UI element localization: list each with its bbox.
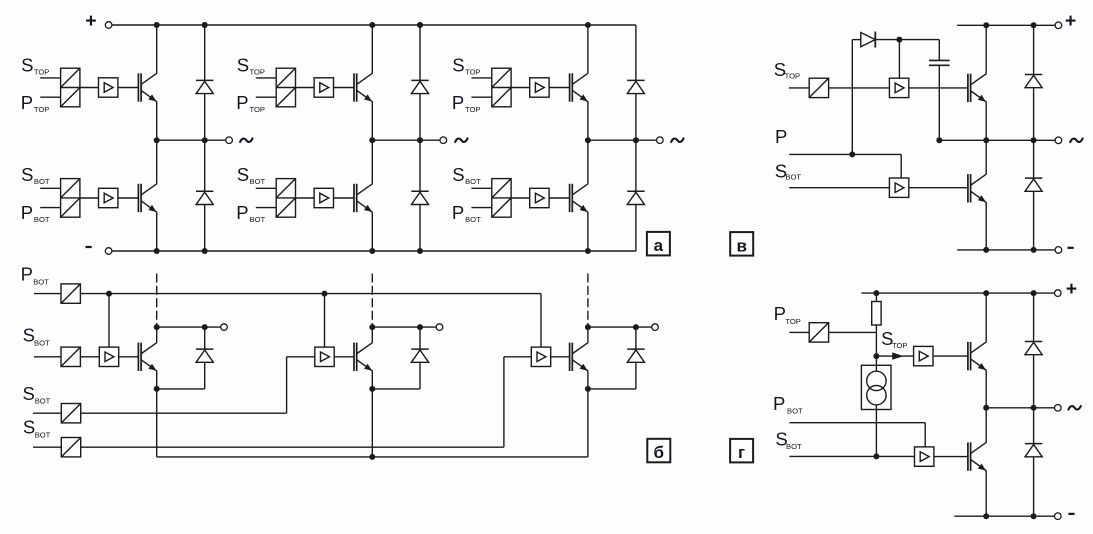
circuit v: diode column upper: [1033, 25, 1035, 74]
wire S_BOT 2: [33, 412, 61, 414]
transformer top leg3: [492, 68, 511, 107]
isolation box S_BOT 1: [61, 347, 80, 366]
circuit a: + DC rail: [112, 24, 636, 26]
wire box1 to driver1: [80, 356, 99, 358]
junction dot mid transistor leg1: [154, 137, 160, 143]
wire S3 to driver3: [504, 356, 531, 358]
svg-text:TOP: TOP: [465, 105, 480, 114]
circuit g: diode top: [1025, 341, 1042, 343]
circuit v: diode column to bottom: [1033, 191, 1035, 250]
circuit v: bootstrap capacitor: [929, 59, 950, 61]
svg-text:BOT: BOT: [465, 215, 481, 224]
emitter node wire b leg2: [372, 388, 420, 390]
wire P bus to driver1: [108, 294, 110, 348]
wire S_TOP leg1: [40, 77, 60, 79]
wire P_BOT leg2: [256, 207, 276, 209]
junction dot mid diode leg3: [633, 137, 639, 143]
circuit g: diode bottom: [1025, 443, 1042, 445]
circuit v: wire emitter top: [985, 102, 987, 140]
wire driver-gate bottom leg3: [549, 197, 570, 199]
junction dot emitter b leg1: [154, 386, 160, 392]
circuit v: bootstrap top wire: [875, 39, 939, 41]
emitter drop leg2 b: [371, 389, 373, 457]
AC mid rail leg1: [157, 139, 226, 141]
emitter drop leg1 b: [156, 389, 158, 457]
diode wire upper b leg2: [419, 327, 421, 349]
wire P_BOT leg1: [40, 207, 60, 209]
wire collector top leg1: [156, 25, 158, 73]
circuit g: IGBT top: [967, 342, 969, 370]
wire S3 horizontal: [81, 446, 504, 448]
circuit g: wire P_BOT down to driver: [924, 423, 926, 447]
junction dot bottom rail leg2 diode: [417, 248, 423, 254]
circuit g: wire driver-gate bottom: [934, 456, 968, 458]
AC output terminal leg2: [440, 137, 447, 144]
wire P bus to driver3: [540, 294, 542, 348]
svg-text:TOP: TOP: [465, 68, 480, 77]
driver b leg3: [531, 347, 550, 366]
circuit v: wire box to driver: [829, 87, 890, 89]
circuit a: minus terminal: [86, 246, 92, 248]
circuit g: wire resistor-junction: [875, 325, 877, 356]
wire emitter top leg3: [587, 102, 589, 140]
frame label g: [730, 439, 753, 463]
wire diode column to bottom leg1: [204, 205, 206, 252]
svg-text:P: P: [236, 202, 248, 223]
wire driver-gate b leg2: [334, 356, 354, 358]
circuit g: wire emitter bottom: [985, 471, 987, 516]
circuit g: mid rail: [986, 407, 1054, 409]
circuit g: junction dot rail transistor: [983, 290, 989, 296]
junction dot mid transistor leg2: [369, 137, 375, 143]
svg-text:P: P: [452, 92, 464, 113]
wire emitter b leg3: [587, 371, 589, 389]
wire collector top leg3: [587, 25, 589, 73]
wire emitter bottom leg3: [587, 212, 589, 251]
junction dot collector b leg3: [585, 324, 591, 330]
AC mid rail leg3: [588, 139, 657, 141]
wire collector b leg2: [371, 327, 373, 342]
circuit g: wire collector bottom: [985, 408, 987, 442]
svg-text:BOT: BOT: [34, 339, 50, 348]
isolation box S_BOT 2: [61, 404, 80, 423]
circuit v: + rail: [957, 24, 1055, 26]
junction dot P bus driver1: [106, 291, 112, 297]
IGBT b leg3: [569, 343, 571, 371]
junction dot bottom rail leg3 transistor: [585, 248, 591, 254]
circuit g: wire collector top: [985, 293, 987, 342]
wire P_TOP leg3: [471, 96, 491, 98]
IGBT top leg2: [353, 73, 355, 101]
circuit v: - rail: [957, 249, 1055, 251]
circuit g: driver top: [914, 346, 933, 365]
wire collector bottom leg3: [587, 140, 589, 183]
AC tilde leg1: [240, 138, 252, 142]
circuit v: wire dot to driver top: [898, 40, 900, 79]
wire diode column mid-lower leg3: [635, 140, 637, 191]
wire driver-gate bottom leg2: [334, 197, 355, 199]
wire xfmr-driver bottom leg2: [296, 197, 315, 199]
junction dot collector b leg2: [369, 324, 375, 330]
svg-text:BOT: BOT: [785, 173, 801, 182]
svg-text:+: +: [85, 10, 96, 32]
svg-text:BOT: BOT: [786, 442, 802, 451]
wire S_TOP leg3: [471, 77, 491, 79]
circuit g: driver bottom: [915, 447, 934, 466]
svg-text:TOP: TOP: [34, 68, 49, 77]
IGBT top leg3: [569, 73, 571, 101]
dashed link line leg1: [156, 274, 158, 328]
circuit g: CT circle 2: [867, 386, 886, 405]
circuit v: wire corner to capacitor: [938, 40, 940, 60]
svg-text:BOT: BOT: [34, 215, 50, 224]
circuit v: wire collector bottom: [985, 140, 987, 174]
wire S2 to driver2: [287, 356, 315, 358]
freewheel diode bottom leg2: [411, 190, 428, 192]
svg-text:TOP: TOP: [250, 68, 265, 77]
circuit g: diode column upper: [1033, 293, 1035, 341]
frame label a: [647, 232, 670, 256]
svg-text:P: P: [21, 202, 33, 223]
freewheel diode bottom leg1: [196, 190, 213, 192]
junction dot P bus driver2: [322, 291, 328, 297]
circuit g: junction dot rail diode: [1031, 290, 1037, 296]
svg-text:S: S: [237, 54, 249, 75]
diode b leg3: [627, 348, 644, 350]
circuit v: wire P: [789, 153, 901, 155]
svg-text:S: S: [452, 54, 464, 75]
output terminal b leg1: [221, 324, 228, 331]
circuit g: diode column mid-lower: [1033, 408, 1035, 444]
wire emitter top leg1: [156, 102, 158, 140]
circuit v: IGBT bottom: [967, 174, 969, 202]
diode b leg2: [411, 348, 428, 350]
circuit v: dots bottom rail: [983, 247, 989, 253]
diode b leg1: [196, 348, 213, 350]
wire P bus to driver2: [324, 294, 326, 348]
wire P_TOP leg2: [256, 96, 276, 98]
output terminal b leg3: [652, 324, 659, 331]
dashed link line leg3: [587, 274, 589, 328]
wire diode column mid-lower leg1: [204, 140, 206, 191]
svg-text:P: P: [236, 92, 248, 113]
circuit v: diode top: [1025, 74, 1042, 76]
wire diode column upper leg3: [635, 25, 637, 80]
svg-text:TOP: TOP: [785, 72, 800, 81]
wire diode column to mid leg3: [635, 94, 637, 141]
wire xfmr-driver bottom leg3: [511, 197, 530, 199]
circuit v: wire to bootstrap diode: [852, 39, 861, 41]
frame label v: [730, 232, 753, 256]
wire diode column mid-lower leg2: [419, 140, 421, 191]
circuit v: diode column to mid: [1033, 88, 1035, 141]
wire P_BOT leg3: [471, 207, 491, 209]
svg-text:TOP: TOP: [892, 341, 907, 350]
svg-text:BOT: BOT: [35, 430, 51, 439]
svg-text:P: P: [775, 126, 787, 147]
circuit v: dots top rail: [983, 22, 989, 28]
driver top leg2: [314, 78, 333, 97]
circuit g: wire S_BOT: [789, 455, 914, 457]
junction dot top rail leg2 transistor: [369, 22, 375, 28]
emitter drop leg3 b: [587, 389, 589, 457]
freewheel diode top leg3: [627, 79, 644, 81]
IGBT top leg1: [137, 73, 139, 101]
freewheel diode top leg2: [411, 79, 428, 81]
driver bottom leg2: [314, 188, 333, 207]
svg-text:а: а: [654, 236, 664, 255]
driver b leg1: [99, 347, 118, 366]
wire collector bottom leg2: [371, 140, 373, 183]
wire emitter top leg2: [371, 102, 373, 140]
circuit g: wire CT down: [875, 405, 877, 457]
circuit v: AC tilde: [1070, 139, 1082, 143]
isolation box S_BOT 3: [61, 438, 80, 457]
circuit v: junction dot bootstrap: [896, 37, 902, 43]
circuit a: - DC rail: [112, 250, 636, 252]
circuit g: arrow wire to driver: [876, 355, 913, 357]
circuit g: junction dot S_BOT CT: [873, 453, 879, 459]
svg-text:г: г: [738, 443, 745, 462]
wire S_BOT leg1: [40, 187, 60, 189]
circuit g: wire box to junction: [829, 331, 877, 333]
wire emitter bottom leg1: [156, 212, 158, 251]
circuit g: junction dot S_TOP: [873, 353, 879, 359]
IGBT b leg2: [353, 343, 355, 371]
AC output terminal leg3: [657, 137, 664, 144]
junction dot top rail diode leg2: [417, 22, 423, 28]
circuit v: wire S_BOT: [789, 187, 889, 189]
svg-text:S: S: [23, 383, 35, 404]
junction dot top rail leg1 diode: [202, 22, 208, 28]
output terminal b leg2: [436, 324, 443, 331]
freewheel diode bottom leg3: [627, 190, 644, 192]
circuit v: junction dot P: [849, 151, 855, 157]
wire driver-gate b leg3: [551, 356, 570, 358]
junction dot collector diode b leg1: [202, 324, 208, 330]
collector node wire b leg2: [372, 326, 436, 328]
circuit g: AC tilde: [1068, 406, 1080, 410]
circuit v: wire collector top: [985, 25, 987, 73]
circuit v: diode bottom: [1025, 177, 1042, 179]
wire diode column upper leg2: [419, 25, 421, 80]
wire S3 vertical: [503, 357, 505, 447]
svg-text:б: б: [654, 443, 665, 462]
svg-text:+: +: [1065, 10, 1076, 32]
circuit v: wire capacitor to mid: [938, 66, 940, 141]
emitter node wire b leg3: [588, 388, 636, 390]
wire xfmr-driver top leg3: [511, 87, 530, 89]
wire emitter bottom leg2: [371, 212, 373, 251]
circuit v: wire driver-gate bottom: [909, 187, 968, 189]
junction dot top rail leg3 transistor: [585, 22, 591, 28]
svg-text:BOT: BOT: [35, 397, 51, 406]
junction dot emitter b leg3: [585, 386, 591, 392]
circuit g: junction dot rail resistor: [873, 290, 879, 296]
junction dot bus b: [369, 454, 375, 460]
wire xfmr-driver top leg2: [296, 87, 315, 89]
svg-text:S: S: [237, 164, 249, 185]
wire S_BOT 3: [33, 446, 61, 448]
junction dot bottom rail leg1 transistor: [154, 248, 160, 254]
IGBT bottom leg1: [137, 184, 139, 212]
circuit g: resistor: [872, 302, 881, 326]
svg-text:+: +: [1066, 278, 1077, 300]
circuit g: + rail: [861, 292, 1054, 294]
dashed link line leg2: [371, 274, 373, 328]
wire S2 horizontal: [81, 412, 287, 414]
diode wire lower b leg2: [419, 362, 421, 389]
circuit v: wire driver-gate top: [909, 87, 968, 89]
svg-text:BOT: BOT: [250, 215, 266, 224]
circuit g: isolation box P_TOP: [809, 323, 828, 342]
junction dot mid transistor leg3: [585, 137, 591, 143]
frame label b: [647, 439, 670, 463]
circuit v: wire emitter bottom: [985, 203, 987, 250]
circuit v: IGBT top: [967, 74, 969, 102]
AC output terminal leg1: [226, 137, 233, 144]
transformer bottom leg3: [492, 179, 511, 218]
svg-text:BOT: BOT: [33, 277, 49, 286]
diode wire lower b leg3: [635, 362, 637, 389]
circuit g: wire driver-gate top: [933, 355, 968, 357]
junction dot mid diode leg2: [417, 137, 423, 143]
svg-text:TOP: TOP: [250, 105, 265, 114]
wire driver-gate top leg1: [118, 87, 138, 89]
AC mid rail leg2: [372, 139, 440, 141]
junction dot mid diode leg1: [202, 137, 208, 143]
AC tilde leg3: [671, 138, 683, 142]
wire S_BOT 1: [34, 356, 61, 358]
wire S_BOT leg3: [471, 187, 491, 189]
circuit g: dots mid rail: [983, 405, 989, 411]
circuit v: - terminal: [1055, 247, 1062, 254]
IGBT b leg1: [137, 343, 139, 371]
circuit g: diode column to bottom: [1033, 457, 1035, 516]
wire S2 vertical: [286, 357, 288, 413]
wire diode column to mid leg1: [204, 94, 206, 141]
isolation box P_BOT: [61, 284, 80, 303]
junction dot collector diode b leg2: [417, 324, 423, 330]
diode wire upper b leg3: [635, 327, 637, 349]
junction dot collector b leg1: [154, 324, 160, 330]
common emitter bus b: [157, 456, 588, 458]
circuit g: wire rail-resistor: [875, 293, 877, 301]
circuit g: AC terminal: [1055, 405, 1062, 412]
circuit v: driver bottom: [889, 178, 908, 197]
circuit v: dots mid rail: [936, 137, 942, 143]
svg-text:TOP: TOP: [785, 317, 800, 326]
circuit v: AC terminal: [1055, 137, 1062, 144]
wire collector b leg1: [156, 327, 158, 342]
driver top leg3: [530, 78, 549, 97]
circuit v: bootstrap left vertical: [851, 40, 853, 155]
wire collector b leg3: [587, 327, 589, 342]
circuit g: - rail: [954, 515, 1054, 517]
collector node wire b leg1: [157, 326, 221, 328]
driver b leg2: [315, 347, 334, 366]
junction dot collector diode b leg3: [633, 324, 639, 330]
svg-text:P: P: [21, 92, 33, 113]
circuit g: dots bottom rail: [983, 513, 989, 519]
diode wire upper b leg1: [204, 327, 206, 349]
wire collector bottom leg1: [156, 140, 158, 183]
junction dot bottom rail leg2 transistor: [369, 248, 375, 254]
transformer bottom leg1: [61, 179, 80, 218]
circuit v: mid rail: [939, 139, 1055, 141]
svg-text:BOT: BOT: [787, 406, 803, 415]
wire emitter b leg1: [156, 371, 158, 389]
circuit g: wire P_BOT: [789, 422, 925, 424]
wire S_BOT leg2: [256, 187, 276, 189]
wire P_TOP leg1: [40, 96, 60, 98]
svg-text:P: P: [774, 303, 786, 324]
circuit g: diode column to mid: [1033, 355, 1035, 408]
svg-text:TOP: TOP: [34, 105, 49, 114]
svg-text:BOT: BOT: [34, 177, 50, 186]
circuit g: CT circle 1: [867, 371, 886, 390]
junction dot bottom rail leg1 diode: [202, 248, 208, 254]
driver bottom leg3: [530, 188, 549, 207]
wire diode column upper leg1: [204, 25, 206, 80]
freewheel diode top leg1: [196, 79, 213, 81]
driver top leg1: [99, 78, 118, 97]
junction dot top rail leg1 transistor: [154, 22, 160, 28]
collector node wire b leg3: [588, 326, 652, 328]
circuit g: current transformer box: [861, 365, 891, 409]
circuit g: IGBT bottom: [967, 442, 969, 470]
wire diode column to bottom leg2: [419, 205, 421, 252]
svg-text:S: S: [21, 54, 33, 75]
circuit g: wire emitter top: [985, 371, 987, 408]
svg-text:BOT: BOT: [465, 177, 481, 186]
circuit v: bootstrap diode: [861, 33, 876, 47]
circuit g: wire junction-CT: [875, 356, 877, 371]
wire diode column to mid leg2: [419, 94, 421, 141]
wire P_BOT input: [34, 293, 61, 295]
junction dot top rail diode leg1: [202, 22, 208, 28]
svg-text:P: P: [21, 263, 33, 284]
driver bottom leg1: [99, 188, 118, 207]
svg-text:в: в: [736, 236, 746, 255]
transformer top leg2: [276, 68, 295, 107]
circuit v: isolation box S_TOP: [809, 78, 828, 97]
wire S_TOP leg2: [256, 77, 276, 79]
wire collector top leg2: [371, 25, 373, 73]
wire driver-gate bottom leg1: [118, 197, 138, 199]
wire xfmr-driver bottom leg1: [80, 197, 99, 199]
svg-text:S: S: [452, 164, 464, 185]
svg-text:BOT: BOT: [250, 177, 266, 186]
wire xfmr-driver top leg1: [80, 87, 99, 89]
P_BOT bus wire: [80, 293, 541, 295]
wire emitter b leg2: [371, 371, 373, 389]
circuit g: + terminal: [1055, 290, 1062, 297]
wire driver-gate top leg2: [334, 87, 355, 89]
wire diode column to bottom leg3: [635, 205, 637, 252]
svg-text:P: P: [773, 393, 785, 414]
diode wire lower b leg1: [204, 362, 206, 389]
circuit v: diode column mid-lower: [1033, 140, 1035, 178]
svg-text:S: S: [23, 417, 35, 438]
AC tilde leg2: [455, 138, 467, 142]
svg-text:P: P: [452, 202, 464, 223]
emitter node wire b leg1: [157, 388, 205, 390]
circuit v: + terminal: [1055, 22, 1062, 29]
junction dot top rail leg2 diode: [417, 22, 423, 28]
junction dot emitter b leg2: [369, 386, 375, 392]
IGBT bottom leg2: [353, 184, 355, 212]
